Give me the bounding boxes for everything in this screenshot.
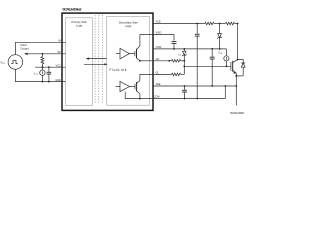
- node emitter: [235, 75, 237, 77]
- pin label GL: [156, 72, 160, 75]
- figure number: [230, 113, 245, 115]
- wire V_IN to GND rail: [15, 69, 65, 81]
- svg-text:Fault: Fault: [21, 43, 27, 47]
- node VEE-emitter: [235, 85, 237, 87]
- svg-text:Dz: Dz: [178, 54, 181, 56]
- V_IN pulse glyph: [11, 61, 17, 64]
- wire R2 to collector: [235, 23, 238, 25]
- pin label VISO: [156, 32, 162, 35]
- node rail-zener2: [183, 48, 185, 50]
- svg-text:PI-8714-031517: PI-8714-031517: [230, 113, 245, 115]
- svg-text:Secondary Side: Secondary Side: [119, 21, 138, 25]
- capacitor C_VEE: [182, 86, 187, 99]
- node riser-VEE: [224, 85, 226, 87]
- capacitor C_VCC: [47, 67, 52, 81]
- emitter wire down: [235, 73, 237, 105]
- IGBT Q1: [231, 60, 238, 74]
- svg-text:FluxLink: FluxLink: [109, 68, 126, 72]
- node GND-VCC: [42, 81, 44, 83]
- svg-text:Primary Side: Primary Side: [72, 20, 88, 24]
- wire: Q_on drain to VISO pin: [140, 35, 153, 47]
- output FET Q_on: [129, 46, 140, 61]
- pin label VEE: [156, 83, 161, 86]
- VEE wire: [153, 85, 236, 87]
- node rail-cap212: [211, 48, 213, 50]
- gate merge riser: [183, 61, 185, 75]
- node VCC-R: [42, 66, 44, 68]
- COM rail secondary: [153, 48, 226, 50]
- node VCE filter: [196, 23, 198, 25]
- wire: buffer U1B enable return: [125, 92, 140, 99]
- node GH pin: [168, 60, 170, 62]
- output FET Q_off: [129, 81, 140, 94]
- command arrow (right): [84, 63, 108, 65]
- wire R_off to riser: [181, 73, 185, 75]
- freewheel diode D1: [236, 60, 245, 76]
- gate wire to IGBT: [184, 65, 231, 67]
- probe V_CE circle: [224, 49, 229, 66]
- node C_VCE-COM: [196, 98, 198, 100]
- FluxLink label: [109, 68, 126, 72]
- fault output label: [21, 43, 29, 50]
- capacitor C_VCE filter: [195, 24, 200, 99]
- probe label: [218, 52, 223, 56]
- resistor R_VCE2: [226, 22, 235, 25]
- node GH output: [139, 60, 141, 62]
- wire: GH output to pin: [140, 60, 153, 62]
- pin label COM: [156, 46, 162, 49]
- pin label GH: [156, 58, 160, 61]
- buffer U1B input stub: [116, 86, 121, 88]
- resistor R_off: [172, 73, 181, 76]
- buffer U1B triangle: [120, 81, 129, 91]
- wire R1-R2: [214, 23, 226, 25]
- node gate-a: [183, 60, 185, 62]
- left pin label IN: [58, 40, 61, 43]
- node GND-C: [48, 81, 50, 83]
- buffer U1A triangle: [120, 48, 129, 59]
- capacitor C_VISO: [172, 42, 177, 49]
- node collector top: [237, 23, 239, 25]
- VCC rail: [35, 66, 66, 68]
- riser COM to VEE: [224, 86, 226, 99]
- capacitor C_COM-VEE: [210, 49, 215, 86]
- node gate-probe: [226, 65, 228, 67]
- svg-text:Logic: Logic: [125, 24, 132, 28]
- svg-text:Output: Output: [21, 47, 29, 51]
- svg-text:Logic: Logic: [76, 24, 83, 28]
- zener D_VCE: [217, 24, 221, 49]
- node rail-VISO cap: [173, 48, 175, 50]
- node COM internal: [139, 98, 141, 100]
- isolation barrier dashed lines: [95, 15, 103, 104]
- zener D_gate: [182, 49, 186, 61]
- pin label VCE: [156, 21, 161, 24]
- COM wire bottom: [153, 98, 225, 100]
- fault output arrow: [24, 53, 66, 55]
- svg-text:COM: COM: [156, 46, 162, 49]
- GH wire: [153, 60, 171, 62]
- IC outline U1: [62, 13, 153, 110]
- V_IN label: [0, 60, 5, 65]
- pulse source V_IN: [8, 55, 23, 70]
- node C_VEE-COM: [184, 98, 186, 100]
- node SO pull-up: [42, 53, 44, 55]
- title SCALE-iDriver: [62, 7, 82, 12]
- node C212-VEE: [211, 85, 213, 87]
- zener label: [178, 54, 181, 56]
- VCE sense wire: [153, 23, 205, 25]
- secondary side logic box: [107, 17, 150, 106]
- node collector: [237, 59, 239, 61]
- left pin label VCC: [56, 64, 61, 67]
- resistor R_on: [172, 60, 181, 63]
- wire: Q_off drain to GL pin: [140, 74, 153, 80]
- VISO wire: [153, 35, 174, 41]
- node VCC-C: [48, 66, 50, 68]
- wire R_on to gate node: [181, 60, 185, 62]
- node zener-COM rail: [219, 48, 221, 50]
- GL wire: [153, 73, 171, 75]
- node VEE-C: [184, 85, 186, 87]
- node between R_VCE1 R_VCE2: [219, 23, 221, 25]
- pin label COM2: [154, 96, 160, 99]
- buffer U1A input stub: [116, 53, 120, 55]
- left pin label GND: [55, 79, 61, 82]
- resistor R_VCE1: [205, 22, 214, 25]
- collector feed: [237, 24, 239, 60]
- V_CC label: [34, 71, 39, 76]
- wire V_IN to IN pin: [15, 42, 65, 54]
- resistor R_SO pull-up: [41, 54, 44, 67]
- feedback arrow (left): [86, 58, 107, 60]
- left pin label SO: [57, 51, 61, 54]
- svg-text:SCALE-iDriver: SCALE-iDriver: [62, 7, 82, 12]
- node gate-b: [183, 65, 185, 67]
- primary side logic box: [66, 18, 93, 106]
- source V_CC: [40, 67, 45, 81]
- wire: Q_off source to COM pin: [140, 94, 153, 99]
